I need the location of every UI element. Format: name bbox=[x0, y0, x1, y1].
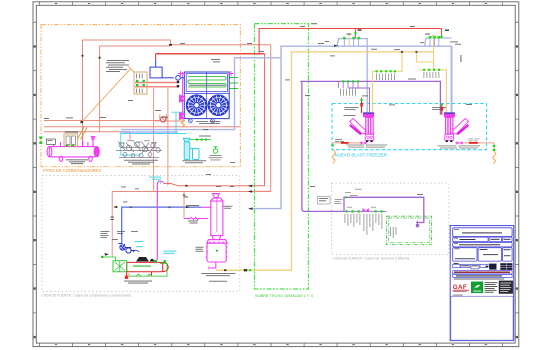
revision strip small boxes bbox=[453, 264, 460, 267]
compressor cyan labels bbox=[134, 241, 176, 254]
fitting marks condenser left bbox=[169, 44, 179, 87]
title row 4 boxes bbox=[453, 248, 477, 261]
blast freezer 2 bbox=[444, 112, 469, 142]
junction dot corridor bbox=[185, 185, 187, 187]
wire salmon loop outer top bbox=[83, 40, 271, 191]
freezer 1 labels bbox=[335, 107, 387, 147]
wire yellow manifold tick bbox=[348, 33, 350, 46]
wire magenta vessel feed bbox=[201, 206, 211, 208]
yellow line fittings bbox=[224, 269, 247, 271]
condenser fan 2 bbox=[208, 95, 229, 116]
svg-text:CASA DE FUERZA : Cuarto de com: CASA DE FUERZA : Cuarto de compresores y… bbox=[42, 294, 132, 298]
wire red drop freezer 2 bbox=[441, 105, 443, 115]
wire blue drop freezer2 bbox=[451, 46, 453, 114]
wire purple manifold1 collector bbox=[348, 88, 370, 113]
condenser fan 1 bbox=[186, 95, 207, 116]
black arrow marks near pumps bbox=[105, 253, 110, 256]
wire salmon corridor lower bbox=[112, 192, 271, 258]
screw compressor package C-1 bbox=[113, 257, 168, 276]
patio de condensadores boundary (orange dash-dot box) bbox=[41, 25, 240, 167]
wire cyan makeup drop bbox=[121, 132, 141, 155]
svg-text:PATIO DE CONDENSADORES: PATIO DE CONDENSADORES bbox=[43, 168, 101, 173]
wire red top header to freezers bbox=[259, 29, 441, 54]
svg-text:SOBRE TECHO GRANJAS 1 Y 4: SOBRE TECHO GRANJAS 1 Y 4 bbox=[255, 293, 314, 298]
address bar bbox=[454, 279, 504, 280]
wire magenta compressor discharge riser bbox=[156, 183, 158, 260]
project title bar maroon bbox=[453, 271, 512, 274]
note block top left bbox=[106, 60, 129, 72]
receiver left green valve bbox=[39, 137, 42, 144]
wire purple long riser bbox=[302, 81, 344, 211]
wire green treated water bbox=[190, 139, 211, 141]
receiver left gauge block bbox=[47, 139, 56, 145]
contratista caption bbox=[453, 294, 463, 297]
wire salmon drain drop bbox=[183, 192, 185, 219]
wire salmon riser to pump cluster bbox=[129, 132, 131, 140]
wire salmon loop inner top bbox=[100, 46, 171, 132]
title row 1 bbox=[453, 228, 512, 237]
wire blue oil line room bbox=[122, 207, 202, 243]
manifold 1 valves bbox=[334, 29, 362, 47]
scattered pipe labels bbox=[44, 23, 472, 223]
vessel internals green tick bbox=[216, 250, 218, 252]
casa de fuerza termicos room (gray dotted box) bbox=[332, 183, 449, 254]
treatment cluster labels bbox=[124, 160, 158, 165]
compressor red drain valve bbox=[125, 274, 128, 278]
wire red drop manifold 1 bbox=[354, 29, 356, 39]
wire purple manifold1 drops bbox=[338, 81, 340, 88]
wire orange flex condenser bbox=[182, 119, 185, 128]
freezer supply valves red bbox=[360, 103, 443, 111]
condenser spray header magenta bbox=[178, 71, 234, 120]
wire yellow liquid main riser bbox=[216, 52, 293, 270]
wire yellow freezer2 branch bbox=[430, 35, 438, 39]
wire purple hot-gas defrost header bbox=[300, 81, 440, 114]
wire magenta oil return bbox=[184, 217, 208, 219]
vessel labels bbox=[186, 205, 235, 282]
receiver vessel R-1 bbox=[47, 137, 99, 162]
yellow branch valve rows green ticks bbox=[342, 69, 440, 83]
valve magenta drain 1 bbox=[361, 141, 367, 144]
cyan leader text bombas bbox=[149, 177, 161, 180]
termicos green inner boundary (double dash-dot box) bbox=[387, 216, 432, 244]
junction dot receiver line bbox=[81, 121, 84, 123]
wire orange flex freezer left bbox=[332, 150, 336, 164]
revision dark cells bbox=[486, 265, 489, 267]
engineer text column bbox=[485, 282, 498, 292]
termicos magenta valve bbox=[363, 208, 369, 212]
wire purple termicos loop bbox=[344, 197, 424, 222]
wire blue parallel stub bbox=[121, 131, 178, 133]
wire red stub to blue tank bbox=[155, 54, 157, 59]
title block outer frame bbox=[450, 226, 514, 341]
wire salmon freezer2 drain bbox=[455, 143, 494, 150]
wire red thick header bbox=[156, 53, 265, 55]
wire magenta loop seal bbox=[157, 181, 164, 183]
svg-text:CASA DE FUERZA : Cuarto de Tér: CASA DE FUERZA : Cuarto de Térmicos y Bi… bbox=[333, 257, 410, 261]
wire blue manifold2 bridge bbox=[425, 38, 452, 46]
termicos micro label columns bbox=[335, 189, 397, 238]
orange diagonal to receiver gauge box bbox=[78, 127, 84, 139]
purple inner drop in green box bbox=[416, 221, 418, 227]
wire salmon pump line condenser sump bbox=[167, 120, 185, 122]
svg-text:NUEVO BLAST FREEZER: NUEVO BLAST FREEZER bbox=[335, 153, 387, 158]
dosing green arrows bbox=[196, 139, 207, 141]
receiver niveles label bbox=[65, 131, 79, 134]
evaporative condenser EC-1 bbox=[184, 72, 229, 123]
valve magenta drain 2 bbox=[457, 141, 463, 144]
title row 3 bbox=[453, 243, 512, 247]
termicos valve train green ticks bbox=[345, 196, 383, 212]
dosing labels bbox=[182, 136, 211, 164]
wire salmon freezer1 drain bbox=[332, 142, 365, 144]
manifold 2 valves bbox=[425, 30, 449, 47]
subtitle bar bbox=[453, 275, 512, 278]
level gauge column box (tan) bbox=[134, 72, 147, 94]
wire cyan condenser drain bbox=[171, 112, 184, 133]
wire blue manifold1 bridge bbox=[337, 39, 367, 113]
receiver gauge box bbox=[64, 134, 78, 146]
salmon drain valve marks bbox=[113, 185, 253, 210]
nuevo blast freezer room (cyan dashed box) bbox=[332, 104, 487, 150]
blast freezer 1 bbox=[349, 112, 374, 142]
wire salmon condenser downcomers bbox=[153, 88, 155, 191]
compressor green accessories bbox=[101, 256, 166, 263]
wire salmon condensate headers to receiver bbox=[44, 120, 160, 122]
sobre techo granjas duct (green dash-dot box) bbox=[255, 24, 309, 289]
green bird logo bbox=[471, 282, 483, 294]
thermosyphon vessel V-1 bbox=[206, 194, 228, 270]
termicos ref tag box bbox=[318, 197, 331, 205]
GAF logo bbox=[453, 284, 470, 292]
green service valve bbox=[213, 147, 217, 153]
wire lavender suction header bbox=[121, 46, 451, 129]
wire purple termicos train bbox=[344, 210, 387, 212]
leader diagonal orange short bbox=[129, 66, 135, 72]
condenser label text bbox=[196, 121, 221, 124]
water treatment pump cluster bbox=[116, 141, 162, 158]
wire yellow liquid header bbox=[292, 51, 434, 53]
wire orange flex freezer right bbox=[493, 151, 497, 164]
wire red drop freezer 1 bbox=[361, 98, 363, 113]
wire lavender branch down to arrow bbox=[253, 58, 281, 209]
oil pumps blue bbox=[119, 244, 140, 254]
chemical dosing tanks cyan bbox=[183, 138, 199, 159]
approvals empty box bbox=[451, 296, 513, 340]
compressor oil piping green bbox=[104, 257, 167, 276]
receiver label text bbox=[66, 159, 88, 164]
wire green condenser stubs bbox=[229, 77, 238, 79]
title row 2 boxes bbox=[453, 237, 488, 242]
blue feed tank bbox=[150, 59, 184, 80]
wire red hot-gas corridor bbox=[164, 184, 265, 186]
wire yellow freezer1 branch bbox=[373, 52, 403, 113]
micro labels under yellow rows bbox=[340, 72, 439, 96]
leader diagonal orange long bbox=[82, 69, 131, 123]
drawing number box bbox=[499, 281, 512, 293]
freezer 2 labels bbox=[432, 107, 480, 148]
casa de fuerza compressor room (gray dotted box) bbox=[42, 176, 240, 292]
condenser pump loop seal bbox=[160, 115, 167, 123]
wire salmon condenser inlet pair bbox=[135, 82, 178, 84]
compressor black labels bbox=[101, 231, 153, 284]
